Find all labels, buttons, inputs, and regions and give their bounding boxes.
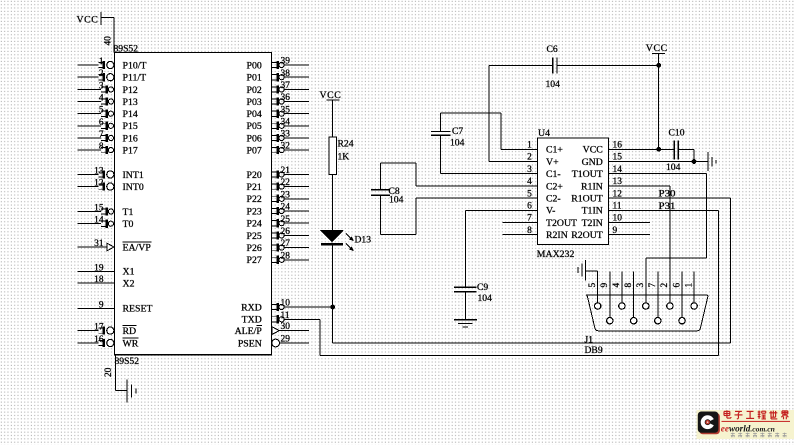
DB9 pin 3 bbox=[636, 283, 649, 310]
svg-text:27: 27 bbox=[281, 239, 291, 249]
svg-text:1: 1 bbox=[99, 57, 104, 67]
ground (below C9) bbox=[454, 320, 477, 327]
power VCC (above R24) bbox=[320, 90, 342, 101]
pin 11 TXD (89S52 right) bbox=[242, 311, 320, 326]
U4 pin 13 R1IN bbox=[581, 177, 622, 192]
pin 7 P16 (89S52 left) bbox=[78, 130, 138, 144]
svg-text:6: 6 bbox=[672, 283, 682, 288]
wire D13 to RXD net bbox=[332, 245, 334, 343]
svg-text:1K: 1K bbox=[338, 152, 350, 163]
DB9 pin 1 bbox=[684, 272, 697, 310]
svg-text:ALE/P: ALE/P bbox=[235, 326, 263, 337]
junction (VCC / C6) bbox=[656, 63, 661, 68]
U4 pin 6 V- bbox=[527, 202, 555, 217]
svg-text:1: 1 bbox=[684, 283, 694, 288]
svg-text:P00: P00 bbox=[247, 60, 262, 71]
wire R1OUT (U4 pin 12) to RXD net bbox=[333, 198, 731, 343]
junction (GND / C10) bbox=[692, 159, 697, 164]
svg-text:32: 32 bbox=[281, 142, 291, 152]
svg-text:9: 9 bbox=[99, 300, 104, 310]
svg-text:4: 4 bbox=[99, 94, 104, 104]
svg-text:R1IN: R1IN bbox=[581, 181, 603, 192]
svg-text:T2IN: T2IN bbox=[582, 218, 603, 229]
svg-text:P01: P01 bbox=[247, 73, 262, 84]
svg-text:P11/T: P11/T bbox=[123, 73, 147, 84]
wire GND (U4 pin 15) to ground bbox=[609, 161, 708, 163]
power VCC (top right) bbox=[646, 43, 668, 54]
svg-text:31: 31 bbox=[94, 239, 104, 249]
svg-text:25: 25 bbox=[281, 215, 291, 225]
IC U4 MAX232 body bbox=[537, 138, 608, 245]
svg-text:21: 21 bbox=[281, 166, 291, 176]
svg-text:J1: J1 bbox=[585, 334, 594, 345]
svg-text:34: 34 bbox=[281, 117, 291, 127]
wire C8 top to C2+ (U4 pin 4) bbox=[381, 163, 538, 190]
svg-text:P25: P25 bbox=[247, 231, 262, 242]
LED D13 bbox=[321, 231, 371, 252]
U4 pin 1 C1+ bbox=[527, 141, 563, 156]
wire C6 right to VCC bbox=[557, 64, 659, 66]
svg-text:T0: T0 bbox=[123, 219, 134, 230]
pin 19 X1 (89S52 left) bbox=[78, 263, 135, 277]
svg-text:37: 37 bbox=[281, 81, 291, 91]
svg-text:28: 28 bbox=[281, 251, 291, 261]
pin 36 P03 (89S52 right) bbox=[247, 93, 309, 108]
wire VCC down to U4 pin 16 bbox=[658, 53, 660, 149]
pin 2 P11/T (89S52 left) bbox=[78, 69, 147, 83]
svg-text:P15: P15 bbox=[123, 121, 138, 132]
svg-text:P24: P24 bbox=[247, 219, 262, 230]
svg-text:PSEN: PSEN bbox=[238, 338, 262, 349]
IC U1 89S52 body bbox=[115, 53, 272, 355]
svg-text:VCC: VCC bbox=[77, 14, 99, 25]
label 89S52 (bottom) bbox=[115, 356, 140, 367]
svg-text:4: 4 bbox=[612, 283, 622, 288]
DB9 pin 7 bbox=[648, 272, 661, 324]
svg-text:26: 26 bbox=[281, 227, 291, 237]
svg-text:2: 2 bbox=[99, 69, 104, 79]
svg-text:33: 33 bbox=[281, 130, 291, 140]
U4 pin 14 T1OUT bbox=[572, 165, 622, 180]
pin 38 P01 (89S52 right) bbox=[247, 69, 309, 84]
connector J1 DB9 body bbox=[586, 295, 708, 331]
junction (VCC / pin16) bbox=[656, 147, 661, 152]
svg-text:R24: R24 bbox=[338, 139, 354, 150]
wire C7 bottom to C1- (U4 pin 3) bbox=[440, 135, 537, 174]
U4 pin 3 C1- bbox=[527, 165, 561, 180]
svg-text:R2OUT: R2OUT bbox=[571, 230, 603, 241]
svg-text:P26: P26 bbox=[247, 243, 262, 254]
svg-text:14: 14 bbox=[94, 216, 104, 226]
pin 26 P25 (89S52 right) bbox=[247, 227, 309, 242]
svg-text:35: 35 bbox=[281, 105, 291, 115]
pin 13 INT1 (89S52 left) bbox=[78, 166, 144, 180]
ground (left of DB9) bbox=[578, 260, 585, 281]
capacitor C9 104 bbox=[454, 282, 492, 304]
label U4 bbox=[538, 128, 550, 139]
wire R24 to D13 bbox=[332, 175, 334, 231]
svg-text:T1: T1 bbox=[123, 207, 134, 218]
pin 39 P00 (89S52 right) bbox=[247, 57, 309, 72]
U4 pin 2 V+ bbox=[527, 153, 559, 168]
resistor R24 1K bbox=[329, 137, 354, 174]
DB9 pin 8 bbox=[624, 272, 637, 324]
pin 10 RXD (89S52 right) bbox=[241, 299, 332, 314]
pin 33 P06 (89S52 right) bbox=[247, 130, 309, 145]
svg-text:19: 19 bbox=[94, 263, 104, 273]
svg-text:7: 7 bbox=[648, 283, 658, 288]
pin 27 P26 (89S52 right) bbox=[247, 239, 309, 254]
svg-text:22: 22 bbox=[281, 178, 291, 188]
svg-text:9: 9 bbox=[600, 283, 610, 288]
ground (pin 20) bbox=[127, 380, 136, 403]
pin 9 RESET (89S52 left) bbox=[78, 300, 153, 314]
svg-text:89S52: 89S52 bbox=[114, 43, 139, 54]
svg-text:X2: X2 bbox=[123, 278, 135, 289]
svg-text:WR: WR bbox=[123, 338, 139, 349]
svg-text:17: 17 bbox=[94, 323, 104, 333]
svg-text:RD: RD bbox=[123, 326, 137, 337]
svg-text:P02: P02 bbox=[247, 85, 262, 96]
pin 17 RD (89S52 left) bbox=[78, 323, 137, 337]
capacitor C7 104 bbox=[431, 126, 465, 148]
svg-text:12: 12 bbox=[94, 179, 104, 189]
svg-text:8: 8 bbox=[624, 283, 634, 288]
svg-text:104: 104 bbox=[478, 293, 493, 304]
wire C8 bottom to C2- (U4 pin 5) bbox=[381, 195, 538, 234]
net label P31 bbox=[659, 201, 676, 212]
svg-text:C10: C10 bbox=[669, 127, 685, 138]
svg-text:5: 5 bbox=[99, 106, 104, 116]
pin 30 ALE/P (89S52 right) bbox=[235, 322, 309, 337]
svg-text:V+: V+ bbox=[546, 157, 559, 168]
DB9 pin 4 bbox=[612, 272, 625, 310]
DB9 pin 5 bbox=[588, 271, 601, 309]
label J1 bbox=[585, 334, 594, 345]
svg-text:7: 7 bbox=[99, 130, 104, 140]
pin 24 P23 (89S52 right) bbox=[247, 203, 309, 218]
wire T1IN (U4 pin 11) to TXD net bbox=[320, 210, 719, 355]
DB9 pin 2 bbox=[660, 283, 673, 310]
DB9 pin 9 bbox=[600, 272, 613, 324]
svg-text:89S52: 89S52 bbox=[115, 356, 140, 367]
svg-text:P06: P06 bbox=[247, 133, 262, 144]
wire DB9 pin 5 to ground bbox=[586, 270, 598, 272]
svg-text:29: 29 bbox=[281, 335, 291, 345]
svg-text:C9: C9 bbox=[477, 282, 488, 293]
svg-text:23: 23 bbox=[281, 190, 291, 200]
svg-text:GND: GND bbox=[582, 157, 603, 168]
svg-text:5: 5 bbox=[588, 283, 598, 288]
svg-text:C2+: C2+ bbox=[546, 181, 563, 192]
svg-text:40: 40 bbox=[104, 36, 114, 46]
capacitor C8 104 bbox=[371, 186, 404, 205]
svg-text:2: 2 bbox=[660, 283, 670, 288]
pin 14 T0 (89S52 left) bbox=[78, 216, 134, 230]
U4 pin 11 T1IN bbox=[582, 202, 622, 217]
U4 pin 9 R2OUT bbox=[571, 226, 650, 241]
eeworld logo bbox=[697, 410, 794, 439]
pin 32 P07 (89S52 right) bbox=[247, 142, 309, 157]
svg-text:3: 3 bbox=[636, 283, 646, 288]
U4 pin 15 GND bbox=[582, 153, 623, 168]
svg-text:P07: P07 bbox=[247, 146, 262, 157]
svg-text:C2-: C2- bbox=[546, 194, 561, 205]
svg-text:13: 13 bbox=[94, 166, 104, 176]
net label P30 bbox=[659, 189, 676, 200]
svg-text:104: 104 bbox=[546, 79, 561, 90]
svg-text:P13: P13 bbox=[123, 97, 138, 108]
svg-text:24: 24 bbox=[281, 203, 291, 213]
pin 15 T1 (89S52 left) bbox=[78, 204, 134, 218]
pin 23 P22 (89S52 right) bbox=[247, 190, 309, 205]
svg-text:104: 104 bbox=[450, 137, 465, 148]
svg-text:INT0: INT0 bbox=[123, 182, 144, 193]
svg-text:6: 6 bbox=[99, 118, 104, 128]
wire R1IN (U4 pin 13) to DB9 pin 2 bbox=[609, 186, 671, 303]
capacitor C10 104 bbox=[666, 127, 685, 173]
pin 12 INT0 (89S52 left) bbox=[78, 179, 144, 193]
svg-text:T1IN: T1IN bbox=[582, 206, 603, 217]
svg-text:P04: P04 bbox=[247, 109, 262, 120]
svg-text:R1OUT: R1OUT bbox=[571, 194, 603, 205]
svg-text:C6: C6 bbox=[547, 44, 558, 55]
wire T1OUT (U4 pin 14) to DB9 pin 3 bbox=[609, 174, 707, 303]
svg-text:18: 18 bbox=[94, 275, 104, 285]
pin 16 WR (89S52 left) bbox=[78, 335, 139, 349]
svg-text:VCC: VCC bbox=[583, 145, 603, 156]
capacitor C6 104 bbox=[546, 44, 561, 90]
svg-text:36: 36 bbox=[281, 93, 291, 103]
pin 31 EA/VP (89S52 left) bbox=[78, 239, 152, 253]
svg-text:V-: V- bbox=[546, 206, 555, 217]
svg-text:RESET: RESET bbox=[123, 304, 153, 315]
svg-text:C1-: C1- bbox=[546, 169, 561, 180]
svg-text:20: 20 bbox=[104, 367, 114, 377]
svg-text:DB9: DB9 bbox=[585, 345, 603, 356]
svg-text:VCC: VCC bbox=[320, 90, 342, 101]
DB9 pin 6 bbox=[672, 272, 685, 324]
label 89S52 (top) bbox=[114, 43, 139, 54]
svg-text:T2OUT: T2OUT bbox=[546, 218, 577, 229]
svg-text:30: 30 bbox=[281, 322, 291, 332]
svg-text:P10/T: P10/T bbox=[123, 60, 147, 71]
U4 pin 7 T2OUT bbox=[503, 214, 577, 229]
pin 3 P12 (89S52 left) bbox=[78, 81, 138, 95]
svg-text:16: 16 bbox=[94, 335, 104, 345]
svg-text:U4: U4 bbox=[538, 128, 550, 139]
U4 pin 5 C2- bbox=[527, 189, 561, 204]
wire U4 pin 16 to C10 bbox=[609, 148, 675, 150]
junction (RXD / D13) bbox=[330, 305, 335, 310]
svg-text:INT1: INT1 bbox=[123, 170, 144, 181]
svg-text:X1: X1 bbox=[123, 267, 135, 278]
wire C6 left to V+ (U4 pin 2) bbox=[489, 65, 553, 161]
svg-text:P14: P14 bbox=[123, 109, 138, 120]
svg-text:10: 10 bbox=[281, 299, 291, 309]
pin 35 P04 (89S52 right) bbox=[247, 105, 309, 120]
svg-text:38: 38 bbox=[281, 69, 291, 79]
svg-text:MAX232: MAX232 bbox=[537, 249, 575, 260]
svg-text:15: 15 bbox=[94, 204, 104, 214]
svg-text:VCC: VCC bbox=[646, 43, 668, 54]
power VCC (pin 40, top-left) bbox=[77, 12, 101, 25]
svg-text:EA/VP: EA/VP bbox=[123, 242, 152, 253]
label MAX232 bbox=[537, 249, 575, 260]
svg-text:R2IN: R2IN bbox=[546, 230, 568, 241]
pin 4 P13 (89S52 left) bbox=[78, 94, 138, 108]
svg-text:eeworld.com.cn: eeworld.com.cn bbox=[721, 423, 775, 433]
pin 37 P02 (89S52 right) bbox=[247, 81, 309, 96]
wire C10 to GND net bbox=[678, 149, 694, 161]
svg-text:C1+: C1+ bbox=[546, 145, 563, 156]
svg-text:D13: D13 bbox=[355, 234, 372, 245]
pin 6 P15 (89S52 left) bbox=[78, 118, 138, 132]
svg-text:39: 39 bbox=[281, 57, 291, 67]
U4 pin 12 R1OUT bbox=[571, 189, 622, 204]
ground (right of C10) bbox=[708, 152, 716, 171]
pin 18 X2 (89S52 left) bbox=[78, 275, 135, 289]
wire V- (U4 pin 6) to C9 bbox=[465, 210, 537, 287]
U4 pin 16 VCC bbox=[583, 141, 623, 156]
svg-text:P27: P27 bbox=[247, 255, 262, 266]
U4 pin 4 C2+ bbox=[527, 177, 563, 192]
svg-text:11: 11 bbox=[281, 311, 290, 321]
svg-text:P03: P03 bbox=[247, 97, 262, 108]
pin 8 P17 (89S52 left) bbox=[78, 142, 138, 156]
pin 40 wire bbox=[101, 18, 114, 53]
svg-text:3: 3 bbox=[99, 81, 104, 91]
svg-text:T1OUT: T1OUT bbox=[572, 169, 603, 180]
pin 29 PSEN (89S52 right) bbox=[238, 335, 309, 350]
svg-text:P21: P21 bbox=[247, 182, 262, 193]
svg-text:RXD: RXD bbox=[241, 302, 262, 313]
svg-text:P05: P05 bbox=[247, 121, 262, 132]
svg-text:P23: P23 bbox=[247, 206, 262, 217]
U4 pin 8 R2IN bbox=[503, 226, 568, 241]
pin 20 wire bbox=[104, 355, 127, 391]
svg-text:104: 104 bbox=[666, 162, 681, 173]
label DB9 bbox=[585, 345, 603, 356]
svg-text:C7: C7 bbox=[452, 126, 463, 137]
svg-text:104: 104 bbox=[389, 194, 404, 205]
svg-text:TXD: TXD bbox=[242, 315, 262, 326]
svg-text:P22: P22 bbox=[247, 194, 262, 205]
U4 pin 10 T2IN bbox=[582, 214, 650, 229]
svg-text:8: 8 bbox=[99, 142, 104, 152]
pin 21 P20 (89S52 right) bbox=[247, 166, 309, 181]
svg-text:P17: P17 bbox=[123, 146, 138, 157]
pin 5 P14 (89S52 left) bbox=[78, 106, 138, 120]
pin 1 P10/T (89S52 left) bbox=[78, 57, 147, 71]
svg-text:P20: P20 bbox=[247, 170, 262, 181]
pin 34 P05 (89S52 right) bbox=[247, 117, 309, 132]
wire VCC to R24 bbox=[332, 100, 334, 137]
wire C9 to ground bbox=[464, 292, 466, 320]
svg-text:P16: P16 bbox=[123, 133, 138, 144]
pin 25 P24 (89S52 right) bbox=[247, 215, 309, 230]
pin 28 P27 (89S52 right) bbox=[247, 251, 309, 266]
svg-text:P12: P12 bbox=[123, 85, 138, 96]
wire C7 top to C1+ (U4 pin 1) bbox=[440, 113, 537, 149]
pin 22 P21 (89S52 right) bbox=[247, 178, 309, 193]
